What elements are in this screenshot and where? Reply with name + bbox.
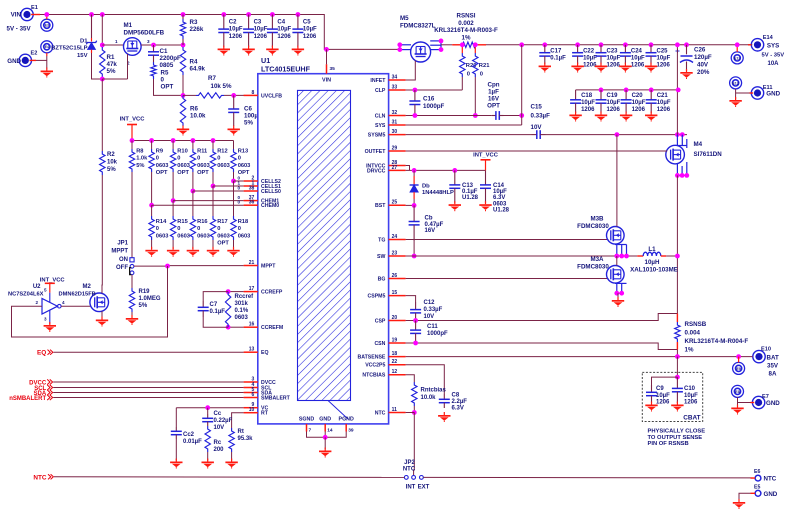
svg-text:1%: 1%: [685, 347, 694, 354]
resistor R2 10k: [100, 151, 105, 175]
U1 pin 28 INTVCC: [389, 165, 406, 167]
svg-text:19: 19: [392, 338, 398, 344]
svg-text:PIN OF RSNSB: PIN OF RSNSB: [648, 441, 689, 447]
svg-text:CBAT: CBAT: [683, 415, 700, 422]
svg-text:R8: R8: [136, 149, 143, 155]
svg-text:R9: R9: [156, 149, 163, 155]
transistor M5 FDMC8327L: [411, 42, 431, 62]
wire R10 to CHEM1: [172, 172, 174, 201]
U1 pin 34 INFET: [389, 79, 406, 81]
svg-text:ON: ON: [119, 257, 128, 263]
svg-text:R18: R18: [238, 219, 248, 225]
svg-text:KRL3216T4-M-R003-F: KRL3216T4-M-R003-F: [434, 27, 498, 34]
capacitor C17: [542, 42, 547, 47]
U1 pin 18 BATSENSE: [389, 356, 406, 358]
svg-text:0.01µF: 0.01µF: [183, 439, 202, 445]
resistor R17: [212, 186, 214, 216]
wire BST: [406, 204, 415, 206]
resistor R7 10k: [183, 94, 196, 96]
transistor M3B FDMC8030: [607, 227, 625, 245]
svg-text:6.3V: 6.3V: [452, 406, 464, 412]
svg-text:OFF: OFF: [116, 265, 128, 271]
svg-text:KRL3216T4-M-R004-F: KRL3216T4-M-R004-F: [685, 338, 749, 345]
svg-text:FDMC8327L: FDMC8327L: [400, 23, 436, 30]
svg-text:0: 0: [467, 72, 470, 78]
svg-text:5%: 5%: [107, 167, 116, 173]
terminal E11 GND: [751, 87, 763, 99]
svg-text:E2: E2: [31, 51, 38, 57]
ground under C3: [248, 46, 250, 49]
ground under C25: [650, 63, 652, 66]
ground under E12: [735, 97, 737, 100]
resistor R12: [212, 141, 214, 150]
svg-text:1206: 1206: [656, 400, 670, 406]
wire CSP: [406, 314, 678, 321]
svg-text:UVCLFB: UVCLFB: [261, 93, 282, 99]
svg-text:VIN: VIN: [322, 78, 331, 84]
svg-text:0.004: 0.004: [685, 330, 701, 337]
wire M5 gate to INFET: [406, 61, 416, 81]
svg-text:15V: 15V: [77, 53, 88, 59]
svg-text:0603: 0603: [197, 233, 210, 239]
svg-text:E4: E4: [45, 45, 49, 49]
svg-text:CSPM5: CSPM5: [368, 294, 386, 300]
svg-text:16: 16: [249, 322, 255, 328]
svg-text:EXT: EXT: [418, 485, 430, 491]
capacitor C23: [599, 42, 604, 47]
svg-text:226k: 226k: [190, 26, 204, 33]
U1 pin 11 NTC: [389, 412, 406, 414]
wire R12 to CELLS1: [212, 172, 214, 186]
svg-text:C21: C21: [657, 93, 669, 99]
ground under C18: [575, 112, 577, 115]
terminal E9: [733, 362, 745, 374]
svg-text:0.1µF: 0.1µF: [550, 56, 566, 62]
U1 pin 37 CHEM1: [244, 200, 258, 202]
svg-text:18: 18: [392, 351, 398, 357]
svg-text:E13: E13: [734, 56, 740, 60]
svg-text:0.002: 0.002: [458, 20, 474, 27]
svg-text:10µF: 10µF: [657, 100, 671, 106]
svg-text:301k: 301k: [235, 301, 249, 307]
svg-text:10V: 10V: [531, 124, 543, 131]
svg-text:NTC: NTC: [33, 474, 47, 481]
terminal E7 GND: [752, 396, 764, 408]
ground under Rc: [207, 452, 209, 461]
svg-text:C11: C11: [427, 324, 438, 330]
capacitor C20: [624, 88, 629, 93]
svg-text:GND: GND: [766, 91, 780, 98]
svg-text:INT_VCC: INT_VCC: [40, 278, 66, 284]
svg-text:10V: 10V: [424, 314, 435, 320]
wire CLN: [406, 115, 492, 117]
wire SYS pin: [406, 124, 522, 126]
svg-text:BZT52C15LP: BZT52C15LP: [51, 46, 87, 52]
svg-text:OPT: OPT: [177, 170, 189, 176]
capacitor Cb 0.47uF: [413, 205, 415, 221]
ground under C13: [454, 201, 456, 204]
svg-text:0603: 0603: [156, 163, 169, 169]
svg-text:5V - 35V: 5V - 35V: [762, 53, 785, 59]
wire BATSENSE / BAT line: [406, 356, 753, 358]
wire SW to M3A drain: [616, 256, 618, 266]
svg-text:10µF: 10µF: [254, 27, 268, 33]
svg-text:10A: 10A: [768, 61, 780, 67]
U1 pin 5 SDA: [244, 392, 258, 394]
wire SYSM5 line: [406, 134, 532, 136]
svg-text:CSP: CSP: [375, 318, 386, 324]
ground under R14: [151, 247, 153, 250]
svg-text:10µF: 10µF: [607, 56, 621, 62]
svg-text:R4: R4: [190, 59, 198, 66]
U1 exposed pad: [298, 90, 351, 400]
svg-text:E10: E10: [761, 347, 771, 353]
svg-text:MPPT: MPPT: [111, 249, 128, 255]
svg-text:Cc: Cc: [214, 411, 222, 417]
capacitor C7 0.1uF: [203, 292, 228, 301]
U1 pin 23 SW: [389, 255, 406, 257]
ground under R16: [192, 247, 194, 250]
svg-text:21: 21: [249, 260, 255, 266]
wire CLP: [406, 89, 463, 91]
svg-text:0603: 0603: [217, 163, 230, 169]
wire VC: [176, 407, 243, 409]
svg-text:E12: E12: [732, 81, 738, 85]
terminal E12: [730, 77, 742, 89]
svg-text:SMBALERT: SMBALERT: [261, 395, 291, 401]
svg-text:E1: E1: [31, 5, 38, 11]
ground under U2: [49, 322, 51, 325]
svg-text:3: 3: [147, 39, 150, 44]
svg-text:10µF: 10µF: [684, 393, 698, 399]
svg-text:5%: 5%: [139, 303, 148, 309]
svg-text:0: 0: [237, 200, 240, 205]
svg-text:0.1%: 0.1%: [235, 308, 249, 314]
terminal E3: [41, 19, 53, 31]
svg-text:RSNSI: RSNSI: [457, 13, 476, 20]
wire E5 to ground: [739, 493, 751, 501]
svg-text:29: 29: [392, 146, 398, 152]
svg-text:C5: C5: [303, 20, 311, 26]
ground under R17: [212, 247, 214, 250]
svg-text:C23: C23: [607, 49, 619, 55]
svg-text:0.1µF: 0.1µF: [210, 309, 226, 315]
svg-text:0: 0: [480, 72, 483, 78]
svg-text:1206: 1206: [581, 107, 595, 113]
svg-text:0.1µF: 0.1µF: [462, 189, 478, 195]
svg-text:OPT: OPT: [217, 241, 229, 247]
U1 pin 25 BST: [389, 204, 406, 206]
svg-text:15: 15: [392, 290, 398, 296]
svg-text:Rntcbias: Rntcbias: [421, 388, 447, 394]
svg-text:CELLS0: CELLS0: [261, 189, 281, 195]
wire NTC pin: [406, 412, 415, 414]
svg-text:0603: 0603: [238, 233, 251, 239]
U1 pin 9 VC: [244, 407, 258, 409]
terminal E13: [731, 52, 743, 64]
ground under C20: [625, 112, 627, 115]
svg-text:1206: 1206: [684, 400, 698, 406]
ground under R6: [182, 126, 184, 129]
svg-text:10V: 10V: [214, 425, 225, 431]
svg-text:0: 0: [238, 156, 241, 162]
svg-text:XAL1010-103ME: XAL1010-103ME: [630, 267, 678, 274]
svg-text:1206: 1206: [277, 34, 291, 40]
svg-text:1%: 1%: [462, 34, 471, 41]
wire DVCC: [53, 381, 243, 383]
svg-text:1N4448HLP: 1N4448HLP: [422, 190, 454, 196]
terminal E10 BAT: [753, 350, 765, 362]
svg-text:16V: 16V: [425, 228, 436, 234]
svg-text:C6: C6: [244, 106, 252, 113]
svg-text:SYS: SYS: [767, 42, 779, 49]
svg-text:LTC4015EUHF: LTC4015EUHF: [261, 65, 311, 74]
svg-text:1.0MEG: 1.0MEG: [139, 296, 161, 302]
svg-text:10.0k: 10.0k: [190, 113, 206, 120]
U1 pin 19 CSN: [389, 342, 406, 344]
wire VIN top rail: [31, 15, 400, 50]
svg-text:FDMC8030: FDMC8030: [577, 223, 609, 230]
svg-text:0805: 0805: [160, 62, 174, 69]
ground under C5: [297, 46, 299, 49]
M3B source comb: [615, 244, 627, 246]
svg-text:4: 4: [62, 300, 65, 305]
capacitor C16 1000pF: [414, 90, 416, 101]
svg-text:R14: R14: [156, 219, 167, 225]
wire NTC to E6: [423, 476, 750, 479]
svg-text:C18: C18: [581, 93, 593, 99]
ground under C17: [544, 63, 546, 66]
transistor M2 DMN62D15FB: [90, 293, 109, 312]
U1 pin 35 VIN: [326, 64, 328, 74]
svg-text:M4: M4: [694, 141, 703, 148]
U1 pin 16 CCREFM: [244, 326, 258, 328]
wire NTC long line: [54, 476, 404, 479]
svg-text:40V: 40V: [697, 62, 709, 69]
U1 pin 8 UVCLFB: [244, 94, 258, 96]
U1 pin 21 MPPT: [244, 265, 258, 267]
svg-text:C22: C22: [583, 49, 595, 55]
capacitor C13 0.1uF: [454, 170, 456, 185]
svg-text:1206: 1206: [632, 107, 646, 113]
jumper JP1 MPPT: [130, 258, 134, 262]
svg-text:INT_VCC: INT_VCC: [120, 117, 146, 123]
resistor R8: [131, 141, 133, 150]
svg-text:C17: C17: [550, 49, 562, 55]
wire SYS rail to cap bank to M4: [676, 45, 678, 135]
svg-text:30: 30: [392, 129, 398, 135]
svg-text:C24: C24: [631, 49, 643, 55]
svg-text:NTC: NTC: [403, 467, 416, 473]
svg-text:1206: 1206: [229, 34, 243, 40]
ground under C21: [650, 112, 652, 115]
svg-text:0603: 0603: [197, 163, 210, 169]
svg-text:1: 1: [115, 39, 118, 44]
svg-text:R1: R1: [107, 54, 115, 61]
svg-text:M2: M2: [83, 284, 92, 290]
svg-text:PGND: PGND: [339, 417, 354, 423]
U1 pin 36 CHEM0: [244, 204, 258, 206]
svg-text:OPT: OPT: [161, 84, 174, 91]
diode Db 1N4448HLP: [413, 170, 415, 176]
wire CSPM5: [406, 296, 416, 302]
power INT_VCC at U2: [49, 283, 51, 292]
ground under C14: [485, 201, 487, 204]
power INT_VCC right: [485, 160, 487, 171]
ground under C2: [223, 46, 225, 49]
svg-text:C25: C25: [657, 49, 669, 55]
wire CSN: [406, 343, 678, 350]
wire OUTFET to M4 gate: [406, 150, 668, 152]
svg-text:DMP56D0LFB: DMP56D0LFB: [124, 29, 165, 36]
svg-text:C9: C9: [656, 386, 664, 392]
svg-text:0603: 0603: [235, 315, 249, 321]
wire SYS output rail: [545, 44, 752, 46]
U1 pin 39 PGND: [345, 424, 347, 432]
transistor M3A FDMC8030: [607, 266, 625, 284]
svg-text:0603: 0603: [493, 201, 507, 207]
node VIN to M1: [100, 12, 105, 17]
capacitor C12 0.33uF: [415, 302, 417, 310]
svg-text:OUTFET: OUTFET: [365, 149, 387, 155]
U1 pin 31 SYS: [389, 124, 406, 126]
svg-text:8A: 8A: [769, 371, 777, 378]
U1 pin 3 DVCC: [244, 381, 258, 383]
svg-text:TG: TG: [378, 237, 385, 243]
svg-text:1206: 1206: [254, 34, 268, 40]
svg-text:NTC: NTC: [375, 410, 386, 416]
svg-text:RSNSB: RSNSB: [685, 321, 707, 328]
svg-text:SW: SW: [377, 254, 385, 260]
svg-text:0: 0: [197, 226, 200, 232]
svg-text:33: 33: [392, 85, 398, 91]
svg-text:10µF: 10µF: [581, 100, 595, 106]
terminal E5 GND: [755, 490, 761, 496]
svg-text:34: 34: [392, 75, 398, 81]
svg-text:11: 11: [392, 407, 398, 413]
svg-text:10k: 10k: [107, 160, 118, 166]
svg-text:C3: C3: [254, 20, 262, 26]
CBAT dashed box: [642, 372, 702, 421]
svg-text:Cpn: Cpn: [487, 82, 499, 89]
U1 pin 6 SMBALERT: [244, 397, 258, 399]
svg-text:Rccref: Rccref: [235, 294, 255, 300]
svg-text:SYSM5: SYSM5: [368, 133, 386, 139]
wire Cpn to SYS node: [504, 115, 522, 117]
svg-text:SGND: SGND: [299, 417, 314, 423]
wire SYSM5 to M4: [546, 134, 688, 136]
svg-text:PHYSICALLY CLOSE: PHYSICALLY CLOSE: [648, 429, 706, 435]
svg-text:R21: R21: [479, 63, 490, 69]
svg-text:R7: R7: [208, 75, 216, 82]
wire CCREFM: [228, 326, 244, 328]
ground under M3A: [617, 297, 619, 300]
U1 pin 32 CLN: [389, 115, 406, 117]
inductor L1 10uH: [637, 255, 643, 257]
svg-text:GND: GND: [319, 417, 331, 423]
resistor R10: [172, 141, 174, 150]
svg-text:8: 8: [252, 90, 255, 96]
svg-text:0: 0: [238, 226, 241, 232]
svg-text:TO OUTPUT SENSE: TO OUTPUT SENSE: [648, 435, 703, 441]
svg-text:CLN: CLN: [375, 113, 386, 119]
wire R2 top: [101, 79, 103, 151]
svg-text:C13: C13: [462, 183, 474, 189]
svg-text:10: 10: [249, 407, 255, 413]
svg-text:10k 5%: 10k 5%: [211, 83, 232, 90]
ground near E2: [46, 68, 48, 71]
svg-text:R10: R10: [177, 149, 187, 155]
svg-text:R15: R15: [177, 219, 187, 225]
resistor R19 1.0MEG: [131, 275, 133, 288]
wire SW line: [406, 255, 638, 257]
svg-text:Cc2: Cc2: [183, 432, 195, 438]
svg-text:1000pF: 1000pF: [427, 331, 448, 337]
svg-text:R2: R2: [107, 152, 115, 158]
svg-text:E3: E3: [45, 24, 49, 28]
svg-text:10.0k: 10.0k: [421, 395, 437, 401]
svg-text:14: 14: [327, 428, 333, 434]
svg-text:1206: 1206: [657, 63, 671, 69]
svg-text:1.0k: 1.0k: [136, 156, 148, 162]
power INT_VCC left: [131, 125, 133, 141]
svg-text:Cb: Cb: [425, 216, 433, 222]
svg-text:0: 0: [177, 226, 180, 232]
svg-text:32: 32: [392, 110, 398, 116]
wire RSNSI out to SYS rail: [486, 44, 545, 46]
svg-text:0603: 0603: [177, 163, 190, 169]
terminal E8: [732, 385, 744, 397]
svg-text:C12: C12: [424, 300, 436, 306]
svg-text:0: 0: [197, 156, 200, 162]
svg-text:10µF: 10µF: [493, 189, 507, 195]
svg-text:17: 17: [249, 286, 255, 292]
svg-text:36: 36: [249, 200, 255, 206]
svg-text:16V: 16V: [488, 96, 500, 103]
U1 pin 7 SGND: [306, 424, 308, 432]
svg-text:0.33µF: 0.33µF: [531, 113, 551, 120]
svg-text:C10: C10: [684, 386, 696, 392]
wire MPPT line: [134, 265, 244, 268]
svg-text:7: 7: [309, 428, 312, 434]
svg-text:0.33µF: 0.33µF: [424, 307, 443, 313]
wire NTC down to JP2: [413, 413, 416, 476]
ground under U1: [324, 448, 326, 451]
wire M3A source to ground: [617, 293, 619, 299]
op-amp U2 NC7SZ04L6X: [42, 299, 58, 315]
wire SYS vertical: [521, 45, 523, 125]
svg-text:2200pF: 2200pF: [160, 55, 182, 62]
svg-text:5%: 5%: [136, 163, 144, 169]
svg-text:SI7611DN: SI7611DN: [694, 151, 723, 158]
svg-text:CLP: CLP: [375, 88, 386, 94]
svg-text:1µF: 1µF: [488, 89, 499, 96]
capacitor C6 100uF: [233, 95, 235, 109]
wire M5 drain to RSNSI: [441, 44, 452, 46]
svg-text:0: 0: [237, 186, 240, 191]
wire M1 gate node: [102, 78, 127, 80]
svg-text:U2: U2: [33, 284, 41, 290]
svg-text:13: 13: [249, 347, 255, 353]
svg-text:R3: R3: [190, 19, 198, 26]
svg-text:25: 25: [392, 200, 398, 206]
svg-text:M5: M5: [400, 15, 409, 22]
svg-text:R6: R6: [190, 106, 198, 113]
svg-text:E8: E8: [735, 390, 739, 394]
wire R9 to CHEM0: [151, 172, 153, 205]
wire Cb to SW: [413, 241, 415, 256]
svg-text:R13: R13: [238, 149, 248, 155]
